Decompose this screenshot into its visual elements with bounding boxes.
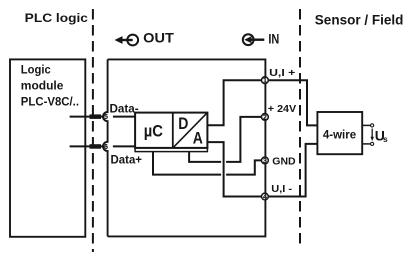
4-wire box right stub top (362, 124, 370, 126)
svg-text:A: A (193, 130, 203, 148)
terminal 3 circle (262, 157, 269, 164)
svg-text:Data+: Data+ (111, 154, 143, 166)
svg-text:5: 5 (104, 114, 108, 121)
wire Data- from logic module to terminal 5 (70, 116, 103, 118)
4-wire box right stub bottom (362, 143, 370, 145)
left box: logic module (10, 59, 85, 236)
wire terminal4 U,I- to DA block (207, 142, 261, 196)
svg-text:Sensor / Field: Sensor / Field (315, 13, 404, 28)
svg-text:+ 24V: + 24V (268, 103, 296, 115)
wire underbar to terminal3 GND (with crossing break) (153, 152, 221, 175)
terminal 2 circle (262, 114, 269, 121)
boundary dashed line device / Sensor-Field (299, 9, 301, 249)
svg-text:2: 2 (263, 114, 267, 121)
svg-text:6: 6 (104, 144, 108, 151)
svg-text:PLC logic: PLC logic (25, 11, 89, 25)
main device box left edge with terminal 5 and terminal 6 bumps (103, 59, 108, 236)
DA block divider (172, 113, 174, 148)
field wire terminal4 to 4-wire box bottom (269, 144, 318, 197)
field wire terminal1 to 4-wire box top (269, 80, 318, 125)
main device box (top, right, bottom edges) (108, 59, 266, 236)
svg-text:s: s (383, 134, 388, 144)
wire underbar to terminal2 +24V (with crossing break) (189, 152, 221, 162)
svg-text:1: 1 (263, 78, 267, 85)
terminal 4 circle (262, 193, 269, 200)
4-wire sensor box (317, 112, 362, 154)
wire terminal1 U,I+ to DA block (207, 80, 261, 125)
svg-text:4: 4 (263, 194, 267, 201)
DA converter block (135, 113, 207, 148)
boundary dashed line PLC logic / device (92, 9, 94, 252)
svg-text:µC: µC (144, 122, 163, 140)
Us arrowhead (370, 137, 374, 141)
underbar below DA block (135, 148, 207, 152)
svg-text:PLC-V8C/..: PLC-V8C/.. (21, 95, 79, 109)
svg-text:4-wire: 4-wire (323, 129, 356, 141)
wire Data+ from logic module to terminal 6 (70, 145, 103, 147)
DA block diagonal (173, 113, 208, 148)
OUT icon arrow+circle (120, 35, 138, 46)
svg-text:GND: GND (272, 155, 296, 167)
small circle Us top (371, 124, 374, 127)
svg-text:U,I -: U,I - (271, 183, 292, 195)
svg-text:module: module (21, 78, 64, 92)
connector bar on Data- wire (90, 114, 102, 119)
svg-text:Logic: Logic (21, 63, 51, 77)
svg-text:U,I +: U,I + (269, 67, 295, 79)
svg-text:3: 3 (263, 158, 267, 165)
small circle Us bottom (371, 142, 374, 145)
svg-text:OUT: OUT (143, 29, 174, 45)
terminal 1 circle (262, 77, 269, 84)
svg-text:D: D (178, 115, 188, 133)
svg-text:IN: IN (268, 31, 279, 47)
IN icon circle+arrow (243, 34, 264, 45)
Us voltage arrow (371, 129, 373, 138)
connector bar on Data+ wire (90, 144, 102, 149)
svg-text:Data-: Data- (110, 103, 139, 115)
